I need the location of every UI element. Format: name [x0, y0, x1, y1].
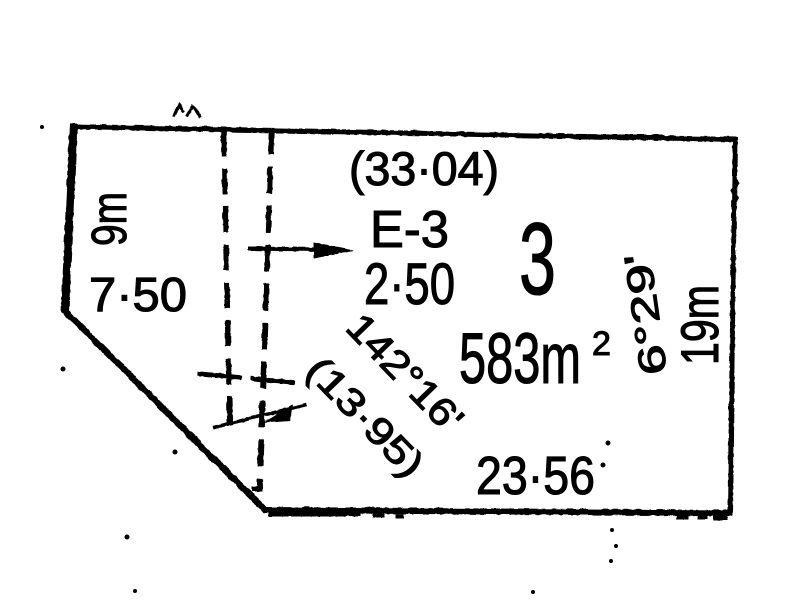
speck below diagonal — [125, 535, 130, 540]
speck top left — [40, 125, 44, 129]
easement dashed line right: bottom foot — [251, 486, 262, 491]
svg-text:2·50: 2·50 — [364, 252, 455, 317]
arrow from (13.95) label: head — [262, 404, 292, 423]
arrow to E-3 label: shaft — [248, 248, 320, 249]
speck below bottom edge 2 — [614, 544, 618, 548]
bottom edge tooth 2 — [395, 514, 403, 518]
bottom edge tooth 3 — [676, 514, 688, 519]
svg-text:3: 3 — [519, 202, 556, 316]
lot boundary: bottom edge — [263, 510, 732, 513]
right edge jag — [732, 176, 738, 204]
svg-text:7·50: 7·50 — [89, 269, 187, 322]
svg-text:9m: 9m — [83, 192, 137, 246]
svg-text:23·56: 23·56 — [476, 446, 595, 506]
stray mark above top edge right — [186, 106, 200, 117]
svg-text:(33·04): (33·04) — [349, 142, 499, 195]
lot boundary: left edge — [65, 123, 74, 311]
tick on left dashed line — [197, 373, 241, 377]
lot boundary: right edge — [730, 137, 735, 513]
lot boundary: top edge — [70, 126, 737, 139]
tick on right dashed line — [250, 378, 294, 382]
easement dashed line left — [223, 130, 230, 431]
speck above diagonal — [173, 450, 178, 455]
bottom edge tooth 4 — [697, 514, 707, 519]
speck below bottom edge 3 — [609, 559, 613, 563]
easement dashed line right — [259, 130, 271, 490]
svg-text:583m: 583m — [459, 320, 581, 399]
speck left of diagonal — [61, 367, 66, 372]
bottom edge tooth 1 — [372, 513, 384, 517]
arrow to E-3 label: head — [313, 242, 353, 258]
lot boundary: splay corner diagonal — [63, 309, 266, 511]
speck bottom center — [531, 590, 535, 594]
bottom edge thick segment — [268, 509, 360, 516]
top edge thick segment — [575, 134, 662, 139]
speck right of 23.56 lower — [601, 463, 606, 468]
stray mark above top edge left — [173, 105, 183, 116]
speck below bottom edge 1 — [610, 528, 614, 532]
svg-text:2: 2 — [592, 325, 611, 363]
svg-text:19m: 19m — [671, 285, 730, 365]
svg-text:E-3: E-3 — [370, 201, 449, 259]
speck right of 23.56 upper — [606, 441, 611, 446]
arrow from (13.95) label: shaft — [213, 404, 306, 427]
speck bottom left — [133, 589, 137, 593]
bottom edge tooth 5 — [713, 515, 727, 520]
